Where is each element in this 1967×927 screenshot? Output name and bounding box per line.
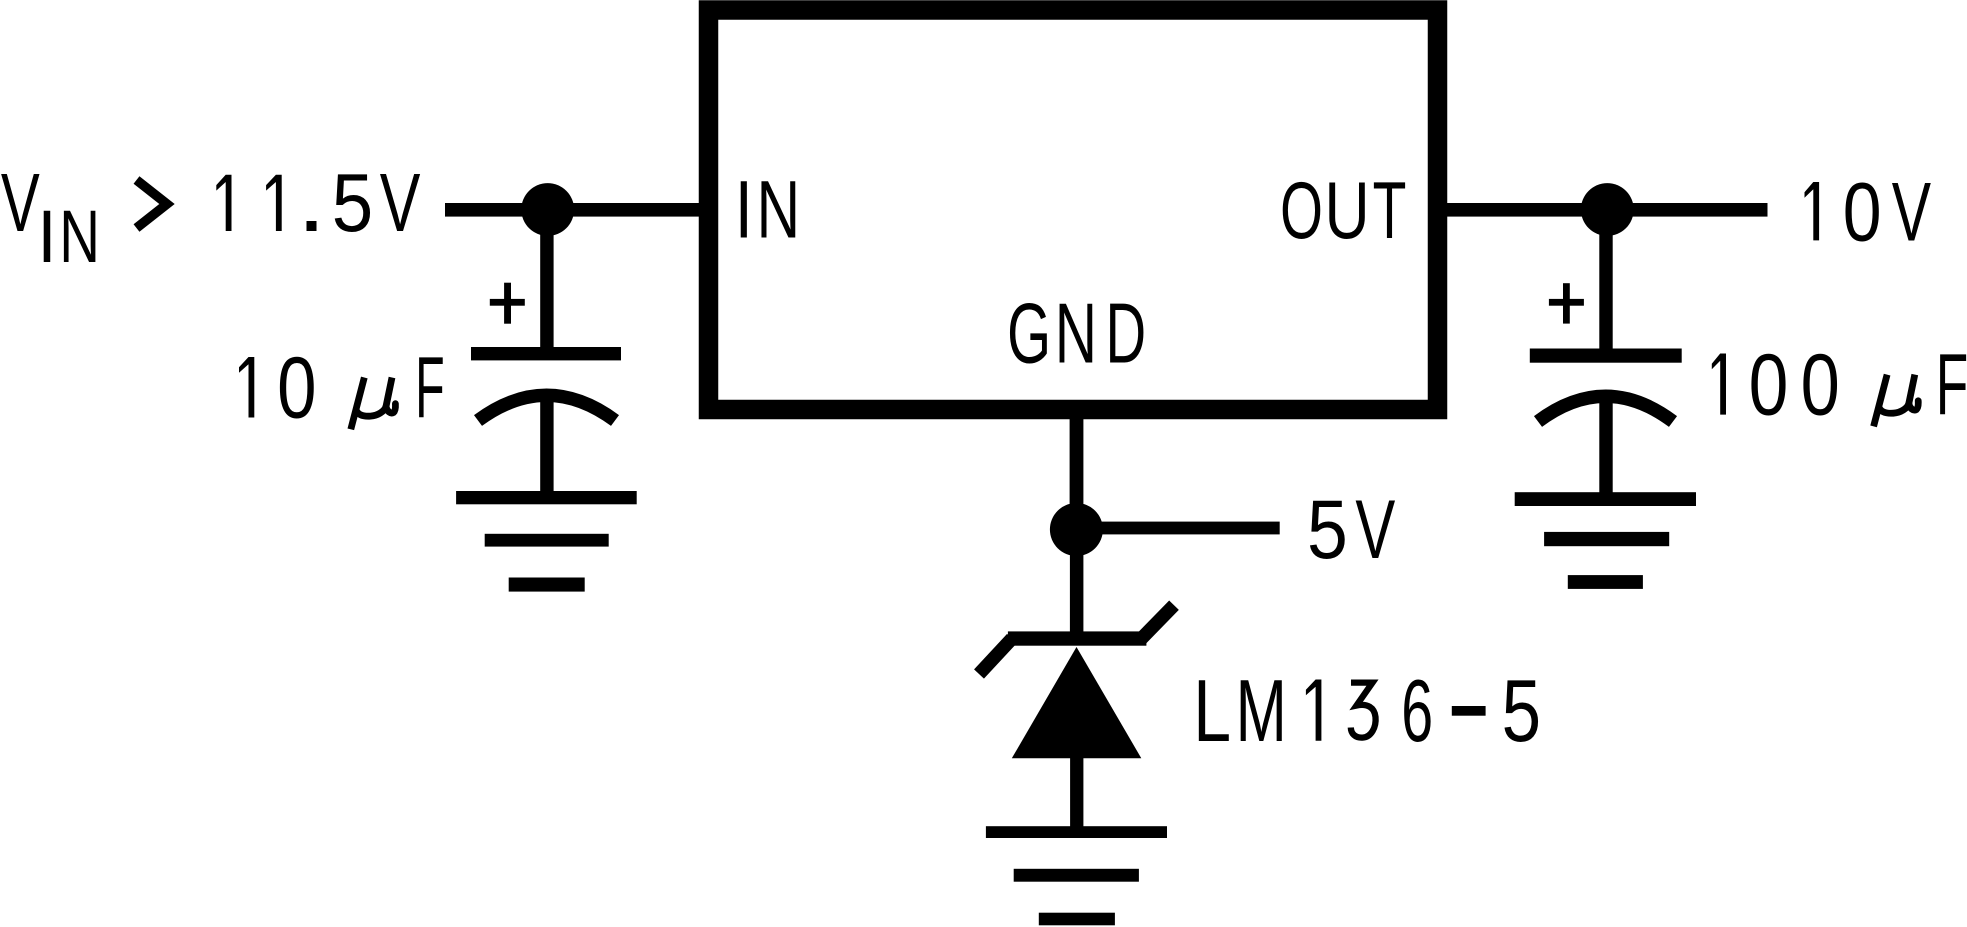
label C1 value 10 uF <box>239 338 445 436</box>
svg-text:I: I <box>735 164 753 255</box>
regulator box U1 <box>709 10 1438 410</box>
svg-text:L: L <box>1193 661 1231 760</box>
svg-text:5: 5 <box>1307 483 1348 577</box>
svg-text:D: D <box>1106 287 1147 381</box>
junction input node <box>521 183 574 236</box>
wire zener anode to ground <box>1070 750 1083 830</box>
svg-text:5: 5 <box>1502 661 1541 759</box>
junction GND node <box>1050 503 1103 556</box>
wire C1 positive lead <box>540 209 553 347</box>
label D1 value LM136-5 <box>1193 661 1541 760</box>
svg-text:N: N <box>59 194 100 277</box>
capacitor C2 top plate <box>1530 349 1682 363</box>
svg-text:T: T <box>1373 165 1407 256</box>
svg-text:V: V <box>380 157 421 249</box>
capacitor C1 bottom plate (curved) <box>478 395 615 420</box>
wire C2 to ground <box>1599 398 1612 497</box>
ground (output capacitor) <box>1515 492 1696 589</box>
svg-text:0: 0 <box>1801 335 1840 433</box>
svg-text:0: 0 <box>277 338 316 436</box>
svg-text:U: U <box>1325 167 1370 256</box>
svg-text:N: N <box>756 165 800 256</box>
zener diode D1 left wing <box>979 639 1012 675</box>
ground (input capacitor) <box>456 491 637 592</box>
wire C2 positive lead <box>1599 209 1612 349</box>
wire C1 to ground <box>540 398 553 497</box>
svg-text:V: V <box>1 157 40 250</box>
svg-text:G: G <box>1007 287 1051 381</box>
svg-text:O: O <box>1280 166 1323 256</box>
pin label GND <box>1007 287 1146 382</box>
svg-text:0: 0 <box>1749 336 1789 434</box>
wire zener cathode lead <box>1070 529 1084 645</box>
svg-text:M: M <box>1236 662 1287 761</box>
svg-text:N: N <box>1055 287 1097 381</box>
svg-text:6: 6 <box>1401 661 1433 759</box>
svg-text:V: V <box>1892 166 1931 258</box>
zener diode D1 anode triangle <box>1012 647 1142 758</box>
wire input VIN to IN pin <box>445 203 710 217</box>
node label 5V <box>1307 483 1396 577</box>
wire 5V tap <box>1076 522 1280 535</box>
capacitor C2 plus sign <box>1549 283 1584 323</box>
label C2 value 100 uF <box>1712 335 1967 434</box>
junction output node <box>1581 183 1634 236</box>
capacitor C1 top plate <box>471 347 621 360</box>
svg-text:F: F <box>415 338 445 436</box>
zener diode D1 right wing <box>1141 605 1174 639</box>
ground (zener) <box>986 826 1167 925</box>
node label 10V <box>1805 166 1932 259</box>
svg-text:V: V <box>1355 483 1395 576</box>
zener diode D1 cathode bar <box>1008 631 1147 645</box>
capacitor C2 bottom plate (curved) <box>1538 396 1673 421</box>
svg-text:0: 0 <box>1843 166 1882 259</box>
svg-text:F: F <box>1936 336 1967 434</box>
pin label OUT <box>1280 165 1406 256</box>
wire GND pin lead <box>1070 405 1084 530</box>
svg-text:I: I <box>37 196 56 278</box>
node label VIN > 11.5V <box>1 156 421 278</box>
wire OUT pin to 10V <box>1437 203 1768 217</box>
pin label IN <box>735 164 801 256</box>
svg-text:5: 5 <box>332 156 373 249</box>
capacitor C1 plus sign <box>490 283 525 324</box>
